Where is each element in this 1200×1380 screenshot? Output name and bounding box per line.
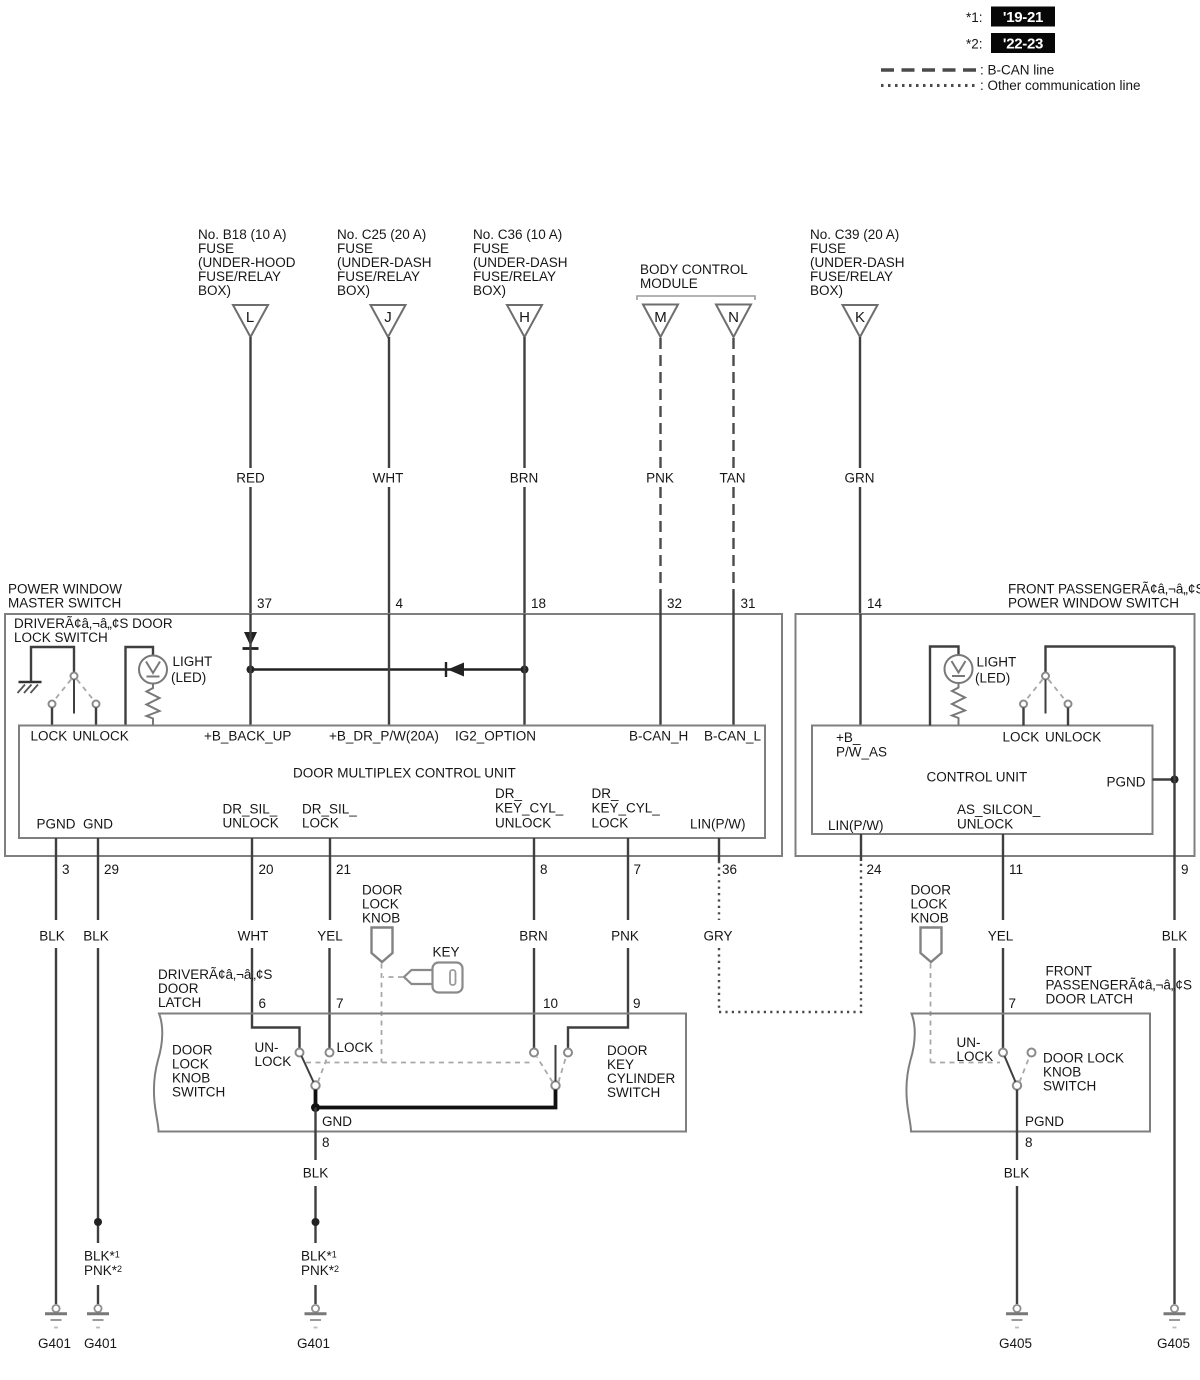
LED lamp (master switch) [139, 656, 167, 684]
svg-text:KEY_CYL_: KEY_CYL_ [592, 801, 661, 816]
wire lock switch common to PGND riser (passenger) [1046, 647, 1175, 673]
svg-text:No. C25 (20 A)FUSE(UNDER-DASHF: No. C25 (20 A)FUSE(UNDER-DASHFUSE/RELAYB… [337, 227, 432, 298]
junction node on driver latch ground wire [312, 1218, 320, 1226]
svg-text:P/W_AS: P/W_AS [836, 745, 887, 760]
svg-text:AS_SILCON_: AS_SILCON_ [957, 802, 1041, 817]
connector K [843, 305, 878, 337]
svg-text:BLK: BLK [303, 1166, 329, 1181]
svg-text:PNK: PNK [611, 929, 639, 944]
svg-text:4: 4 [396, 596, 404, 611]
svg-text:DR_SIL_: DR_SIL_ [302, 802, 357, 817]
svg-text:PNK: PNK [646, 471, 674, 486]
svg-text:DOOR LOCKKNOBSWITCH: DOOR LOCKKNOBSWITCH [1043, 1051, 1124, 1094]
svg-text:LOCK: LOCK [31, 729, 68, 744]
svg-text:LIN(P/W): LIN(P/W) [690, 817, 746, 832]
svg-text:+B_BACK_UP: +B_BACK_UP [204, 729, 291, 744]
svg-text:UN-LOCK: UN-LOCK [957, 1035, 994, 1064]
svg-text:36: 36 [722, 862, 737, 877]
PGND riser wire down to pin 9 [1173, 647, 1175, 857]
door lock knob symbol (driver) [372, 928, 393, 963]
wire fuse J to pin 4 (WHT) [388, 337, 390, 468]
pin 7 stub left unit [627, 838, 629, 856]
svg-text:GND: GND [322, 1114, 352, 1129]
pin 11 stub [1002, 834, 1004, 856]
svg-text:WHT: WHT [373, 471, 404, 486]
svg-text:M: M [654, 309, 667, 326]
svg-text:YEL: YEL [317, 929, 343, 944]
svg-text:29: 29 [104, 862, 119, 877]
svg-text:UNLOCK: UNLOCK [223, 816, 279, 831]
knob switch pivot (driver) [311, 1081, 319, 1089]
svg-text:BLK*1: BLK*1 [301, 1249, 337, 1264]
feed arrow pointing left [446, 662, 464, 677]
svg-text:CONTROL UNIT: CONTROL UNIT [927, 770, 1028, 785]
svg-text:No. C39 (20 A)FUSE(UNDER-DASHF: No. C39 (20 A)FUSE(UNDER-DASHFUSE/RELAYB… [810, 227, 905, 298]
svg-text:18: 18 [531, 596, 546, 611]
knob switch arm dashed (passenger) [1020, 1057, 1030, 1083]
passenger LOCK terminal [1020, 701, 1027, 708]
connector N [716, 305, 751, 338]
svg-text:RED: RED [236, 471, 265, 486]
legend note *1 [966, 7, 1055, 27]
svg-text:PNK*2: PNK*2 [84, 1263, 122, 1278]
svg-text:DOOR MULTIPLEX CONTROL UNIT: DOOR MULTIPLEX CONTROL UNIT [293, 766, 516, 781]
connector L [233, 305, 268, 337]
svg-text:DOORKEYCYLINDERSWITCH: DOORKEYCYLINDERSWITCH [607, 1043, 676, 1100]
mechanical dashed link knob to latch (passenger) [930, 964, 932, 1063]
door lock knob symbol (passenger) [921, 928, 942, 963]
svg-text:7: 7 [1009, 996, 1017, 1011]
junction node on IG2 wire [521, 666, 529, 674]
svg-text:PGND: PGND [1025, 1114, 1064, 1129]
legend other-communication dotted line sample [881, 78, 1141, 93]
svg-text:B-CAN_H: B-CAN_H [629, 729, 688, 744]
svg-text:*2:: *2: [966, 37, 983, 52]
svg-text:PGND: PGND [1107, 775, 1146, 790]
svg-text:20: 20 [259, 862, 274, 877]
connector J [371, 305, 406, 337]
svg-text:DRIVERÃ¢â‚¬â„¢SDOORLATCH: DRIVERÃ¢â‚¬â„¢SDOORLATCH [158, 967, 272, 1010]
connector M [643, 305, 678, 338]
svg-text:G401: G401 [84, 1336, 117, 1351]
wire fuse K to pin 14 (GRN) [859, 337, 861, 468]
knob switch UNLOCK terminal (passenger) [999, 1049, 1007, 1057]
svg-text:GRY: GRY [703, 929, 732, 944]
earth ground G401 c [305, 1305, 327, 1328]
svg-text:DOORLOCKKNOB: DOORLOCKKNOB [362, 883, 403, 926]
LED lamp (passenger switch) [945, 655, 973, 683]
wire lock switch common [31, 647, 74, 681]
svg-text:UNLOCK: UNLOCK [957, 817, 1013, 832]
pin 8 stub left unit [533, 838, 535, 856]
svg-text:J: J [384, 309, 392, 326]
chassis ground (driver's door lock switch) [18, 682, 42, 693]
LED branch wire (master switch) [126, 647, 154, 726]
body control module bracket [637, 296, 755, 300]
wire BCM M to pin 32 (PNK, B-CAN dashed) [659, 338, 661, 468]
passenger UNLOCK terminal [1065, 701, 1072, 708]
svg-text:(LED): (LED) [171, 670, 206, 685]
wire to G405 (passenger latch) [1004, 1166, 1030, 1305]
knob switch arm solid (driver) [302, 1056, 314, 1082]
mechanical dashed link rod to switches (driver) [306, 1062, 531, 1064]
svg-text:GRN: GRN [845, 471, 875, 486]
bold ground link (driver latch) [316, 1090, 556, 1108]
svg-text:K: K [855, 309, 865, 326]
PGND wire to riser [1153, 778, 1175, 780]
svg-text:6: 6 [259, 996, 267, 1011]
svg-text:: Other communication line: : Other communication line [980, 78, 1141, 93]
wire pin7 PNK to key cylinder switch [568, 856, 639, 1049]
svg-text:G401: G401 [38, 1336, 71, 1351]
svg-text:32: 32 [667, 596, 682, 611]
lock switch dashed position lines [55, 680, 72, 701]
svg-text:'19-21: '19-21 [1003, 9, 1043, 26]
svg-text:G405: G405 [999, 1336, 1032, 1351]
key cylinder switch pivot [551, 1081, 559, 1089]
passenger door latch box [906, 1014, 1150, 1132]
wire pin20 WHT to driver latch [238, 856, 300, 1049]
svg-text:3: 3 [62, 862, 70, 877]
junction node on pin29 wire [94, 1218, 102, 1226]
wire pin11 YEL to passenger latch [988, 856, 1014, 1049]
svg-text:MASTER SWITCH: MASTER SWITCH [8, 596, 121, 611]
svg-text:PNK*2: PNK*2 [301, 1263, 339, 1278]
knob switch UNLOCK terminal (driver) [296, 1049, 304, 1057]
svg-text:KEY_CYL_: KEY_CYL_ [495, 801, 564, 816]
wire pin3 BLK to G401 [39, 856, 65, 1304]
legend B-CAN dashed line sample [881, 63, 1054, 78]
svg-text:*1:: *1: [966, 10, 983, 25]
pin 21 stub [329, 838, 331, 856]
wire pin18 to IG2_OPTION [523, 614, 525, 726]
svg-text:TAN: TAN [720, 471, 746, 486]
svg-text:No. C36 (10 A)FUSE(UNDER-DASHF: No. C36 (10 A)FUSE(UNDER-DASHFUSE/RELAYB… [473, 227, 568, 298]
svg-text:KEY: KEY [433, 945, 460, 960]
passenger lock switch arm [1045, 680, 1047, 714]
mechanical dashed link key to knob rod [383, 976, 403, 978]
wire BCM N to pin 31 (TAN, B-CAN dashed) [732, 338, 734, 468]
knob switch arm dashed (driver) [318, 1057, 328, 1083]
key symbol [404, 963, 463, 993]
svg-text:8: 8 [322, 1135, 330, 1150]
svg-text:10: 10 [543, 996, 558, 1011]
wire pin31 to B-CAN_L [732, 591, 734, 726]
earth ground G405 b [1164, 1305, 1186, 1328]
svg-text:LIN(P/W): LIN(P/W) [828, 818, 884, 833]
svg-text:BLK*1: BLK*1 [84, 1249, 120, 1264]
svg-text:+B_: +B_ [836, 730, 861, 745]
svg-text:DOORLOCKKNOB: DOORLOCKKNOB [911, 883, 952, 926]
wire pin9 BLK to G405 [1162, 856, 1188, 1304]
svg-text:14: 14 [867, 596, 883, 611]
svg-text:LOCK: LOCK [1003, 730, 1040, 745]
wire pin32 to B-CAN_H [659, 591, 661, 726]
svg-text:LIGHT: LIGHT [977, 655, 1017, 670]
svg-text:UNLOCK: UNLOCK [495, 816, 551, 831]
lock switch arm (neutral) [73, 680, 75, 714]
key cylinder switch BRN terminal [530, 1049, 538, 1057]
wire fuse L to pin 37 (RED) [249, 337, 251, 468]
wire pin4 to +B_DR_P/W [388, 614, 390, 726]
svg-text:9: 9 [633, 996, 641, 1011]
svg-text:31: 31 [741, 596, 756, 611]
svg-text:L: L [246, 309, 254, 326]
diode on +B_BACK_UP wire [243, 632, 259, 649]
svg-text:9: 9 [1181, 862, 1189, 877]
svg-text:'22-23: '22-23 [1003, 36, 1043, 53]
svg-text:8: 8 [540, 862, 548, 877]
driver's door latch box [154, 1014, 686, 1132]
svg-text:POWER WINDOW: POWER WINDOW [8, 582, 122, 597]
svg-text:BLK: BLK [83, 929, 109, 944]
svg-text:FRONT PASSENGERÃ¢â‚¬â„¢S: FRONT PASSENGERÃ¢â‚¬â„¢S [1008, 582, 1200, 597]
lock switch pole [71, 673, 78, 680]
svg-text:LIGHT: LIGHT [173, 654, 213, 669]
lock switch LOCK terminal [49, 701, 56, 708]
wire pin36 GRY dotted LIN link [703, 861, 861, 1012]
pin 29 stub [97, 838, 99, 856]
svg-text:BRN: BRN [519, 929, 548, 944]
svg-text:BLK: BLK [1162, 929, 1188, 944]
wire fuse H to pin 18 (BRN) [523, 337, 525, 468]
wire GND to G401 (driver latch) [303, 1108, 329, 1305]
key cylinder switch dashed position lines [537, 1057, 553, 1082]
svg-text:IG2_OPTION: IG2_OPTION [455, 729, 536, 744]
svg-text:7: 7 [634, 862, 642, 877]
svg-text:MODULE: MODULE [640, 276, 698, 291]
svg-text:UNLOCK: UNLOCK [73, 729, 129, 744]
svg-text:G401: G401 [297, 1336, 330, 1351]
earth ground G405 a [1006, 1305, 1028, 1328]
svg-text:B-CAN_L: B-CAN_L [704, 729, 762, 744]
resistor (passenger LED) [952, 683, 965, 726]
svg-text:FRONTPASSENGERÃ¢â‚¬â„¢SDOOR LA: FRONTPASSENGERÃ¢â‚¬â„¢SDOOR LATCH [1046, 964, 1192, 1007]
svg-text:WHT: WHT [238, 929, 269, 944]
svg-text:No. B18 (10 A)FUSE(UNDER-HOODF: No. B18 (10 A)FUSE(UNDER-HOODFUSE/RELAYB… [198, 227, 296, 298]
svg-text:G405: G405 [1157, 1336, 1190, 1351]
pin 3 stub [55, 838, 57, 856]
junction node GND (driver latch) [311, 1103, 320, 1112]
knob switch arm solid (passenger) [1005, 1056, 1016, 1082]
svg-text:BODY CONTROL: BODY CONTROL [640, 262, 748, 277]
svg-text:DOORLOCKKNOBSWITCH: DOORLOCKKNOBSWITCH [172, 1043, 225, 1100]
svg-text:GND: GND [83, 817, 113, 832]
svg-text:8: 8 [1025, 1135, 1033, 1150]
svg-text:24: 24 [867, 862, 883, 877]
svg-text:UN-LOCK: UN-LOCK [255, 1040, 292, 1069]
front passenger power window switch box [796, 614, 1195, 856]
LED branch wire (passenger switch) [930, 647, 959, 726]
svg-text:N: N [728, 309, 739, 326]
passenger lock switch dashed position lines [1026, 680, 1043, 701]
feed line from IG2 wire to +B_BACK_UP wire [251, 668, 525, 670]
junction node PGND riser [1171, 776, 1179, 784]
connector H [507, 305, 542, 337]
pin 24 stub [860, 834, 862, 861]
svg-text:LOCK: LOCK [592, 816, 629, 831]
key cylinder switch arm (neutral) [555, 1045, 557, 1082]
key cylinder switch PNK terminal [564, 1049, 572, 1057]
svg-text:LOCK SWITCH: LOCK SWITCH [14, 630, 108, 645]
knob switch pivot (passenger) [1013, 1081, 1021, 1089]
svg-text:21: 21 [336, 862, 351, 877]
svg-text:(LED): (LED) [975, 671, 1010, 686]
earth ground G401 a [45, 1305, 67, 1328]
wire pin8 BRN to key cylinder switch [519, 856, 548, 1049]
svg-text:DR_: DR_ [495, 786, 522, 801]
svg-text:DR_SIL_: DR_SIL_ [223, 802, 278, 817]
door multiplex control unit box [19, 726, 765, 839]
mechanical dashed link knob to latch (driver) [381, 964, 383, 1063]
wire pin37 to +B_BACK_UP [249, 614, 251, 726]
svg-text:LOCK: LOCK [337, 1040, 374, 1055]
svg-text:H: H [519, 309, 530, 326]
control unit box (passenger) [812, 726, 1153, 835]
wire pin21 YEL to driver latch [317, 856, 343, 1049]
wire knob switch pivot down (passenger) [1016, 1090, 1018, 1161]
svg-text:+B_DR_P/W(20A): +B_DR_P/W(20A) [329, 729, 439, 744]
svg-text:DR_: DR_ [592, 786, 619, 801]
wire pin14 to +B_P/W_AS [859, 614, 861, 726]
mechanical dashed link rod to switch (passenger) [931, 1062, 1001, 1064]
earth ground G401 b [87, 1305, 109, 1328]
lock switch UNLOCK terminal [93, 701, 100, 708]
junction node at diode output [247, 666, 255, 674]
passenger lock switch pole [1042, 673, 1049, 680]
svg-text:YEL: YEL [988, 929, 1014, 944]
wire pin29 BLK to G401 [83, 856, 109, 1304]
svg-text:BLK: BLK [1004, 1166, 1030, 1181]
resistor (master switch LED) [147, 684, 160, 726]
svg-text:7: 7 [336, 996, 344, 1011]
svg-text:PGND: PGND [37, 817, 76, 832]
legend note *2 [966, 33, 1055, 53]
svg-text:11: 11 [1009, 862, 1023, 877]
svg-text:BLK: BLK [39, 929, 65, 944]
power window master switch box [5, 614, 782, 856]
pin 36 stub [718, 838, 720, 861]
svg-text:37: 37 [257, 596, 272, 611]
pin 20 stub [251, 838, 253, 856]
knob switch LOCK terminal (passenger) [1028, 1049, 1036, 1057]
knob switch LOCK terminal (driver) [326, 1049, 334, 1057]
svg-text:DRIVERÃ¢â‚¬â„¢S DOOR: DRIVERÃ¢â‚¬â„¢S DOOR [14, 616, 173, 631]
svg-text:POWER WINDOW SWITCH: POWER WINDOW SWITCH [1008, 596, 1179, 611]
svg-text:LOCK: LOCK [302, 816, 339, 831]
svg-text:UNLOCK: UNLOCK [1045, 730, 1101, 745]
svg-text:: B-CAN line: : B-CAN line [980, 63, 1054, 78]
svg-text:BRN: BRN [510, 471, 539, 486]
